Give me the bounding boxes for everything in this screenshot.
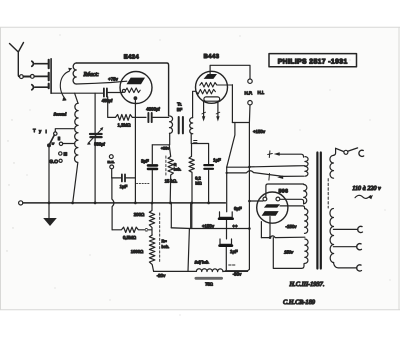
capacitor 6uF electrolytic — [220, 212, 233, 218]
wire m.u. branch with hop over ground bus — [112, 178, 114, 230]
antenna tap 2 wire — [34, 75, 47, 77]
coupling capacitor bar 1 — [48, 60, 50, 68]
rectifier 506 anodes — [264, 204, 280, 207]
wire anode 1 to HT top — [280, 206, 305, 209]
wire: reaction loop top — [76, 63, 168, 116]
filter choke Self bob 75ohm — [196, 269, 223, 272]
pentode B443 filament — [204, 97, 220, 101]
range switch S1 — [54, 132, 57, 135]
ground bus — [19, 201, 23, 205]
dashed tap section — [327, 179, 329, 208]
svg-text:1µF: 1µF — [213, 157, 221, 162]
svg-text:-20v: -20v — [157, 273, 166, 278]
wire tuning cap vertical — [94, 93, 96, 203]
dashed line R bob lower — [159, 213, 161, 262]
svg-text:+150v: +150v — [202, 223, 215, 228]
grid capacitor 450pf — [104, 88, 107, 96]
loudspeaker terminals H.P. H.I. — [248, 79, 252, 83]
antenna bus vertical — [50, 59, 52, 93]
svg-text:1µF: 1µF — [230, 249, 238, 254]
coupling resistor 1.2M — [108, 97, 146, 121]
svg-text:1,2MΩ: 1,2MΩ — [117, 122, 131, 127]
svg-text:-150v: -150v — [286, 224, 298, 229]
tuning coil L2 — [75, 103, 79, 162]
svg-text:150v: 150v — [284, 250, 294, 255]
node B+ vertical — [225, 123, 249, 271]
reaction adjust arrow — [60, 71, 69, 100]
wire grid lead — [108, 92, 123, 94]
wire HI terminal down and left — [232, 105, 250, 123]
resistor 1000 ohm — [149, 235, 155, 271]
resistor 15k — [168, 145, 173, 203]
pentode B443 envelope — [196, 71, 228, 103]
wire switch pivot down — [48, 147, 50, 203]
wire 0.2M below bus to rail — [191, 203, 193, 228]
mains hook terminal (switch) — [359, 150, 364, 156]
svg-text:6µF: 6µF — [234, 206, 242, 211]
triode E424 anode — [127, 78, 146, 85]
svg-text:H.P.: H.P. — [245, 90, 253, 95]
wire coil top lead — [75, 93, 78, 103]
svg-text:4000pf: 4000pf — [146, 107, 160, 112]
triode E424 grid — [122, 89, 125, 92]
reaction coil L react — [73, 63, 76, 84]
filament feed arrow 2 — [268, 174, 271, 181]
svg-text:Self bob.: Self bob. — [195, 259, 210, 264]
svg-text:Second: Second — [54, 111, 67, 116]
dashed line R bob upper — [165, 156, 167, 175]
rectifier 506 envelope — [257, 192, 288, 223]
svg-text:C.H.CR-189: C.H.CR-189 — [283, 299, 316, 306]
tuning variable capacitor 500pf — [90, 134, 102, 137]
svg-text:BF: BF — [177, 107, 183, 112]
wire coil bottom lead — [73, 163, 78, 203]
wire coil tap I — [55, 129, 74, 132]
wire to HT bottom — [273, 238, 304, 269]
HT winding lower — [305, 239, 308, 263]
svg-text:E424: E424 — [124, 54, 140, 61]
4V winding — [304, 185, 307, 204]
wire: main grid line — [51, 92, 103, 94]
transformer Tr BF core — [179, 117, 183, 133]
wire cap chain B with hop — [227, 171, 304, 177]
mains squiggle arrow — [355, 195, 371, 198]
svg-text:15 kΩ.: 15 kΩ. — [165, 179, 178, 184]
antenna link circles — [20, 75, 24, 79]
svg-text:500pf: 500pf — [94, 142, 105, 147]
wire screen grid drop — [231, 85, 233, 123]
wire coil tap II — [63, 143, 75, 145]
svg-text:III: III — [64, 152, 68, 157]
svg-text:110 à 220 v: 110 à 220 v — [352, 185, 381, 192]
pick-up terminals m.u. — [109, 155, 113, 159]
mains transformer core — [317, 153, 320, 269]
wire 506 filament loop top — [266, 184, 304, 197]
capacitor 4000pf — [148, 113, 151, 122]
svg-text:bob.: bob. — [162, 244, 170, 249]
resistor 0.2M — [189, 156, 194, 203]
junction dots on ground bus — [48, 166, 251, 230]
mains switch — [344, 150, 348, 154]
wire B443 grid bias to 1uF — [192, 144, 209, 165]
capacitor 3uF electrolytic — [148, 165, 157, 169]
bottom bus — [154, 270, 248, 272]
coupling capacitor bar 2 — [48, 73, 50, 81]
transformer Tr BF primary — [169, 116, 172, 133]
svg-text:R: R — [174, 163, 177, 167]
mains primary lower — [330, 209, 334, 263]
svg-text:0,5MΩ: 0,5MΩ — [123, 235, 137, 240]
svg-text:200Ω: 200Ω — [134, 212, 145, 217]
wire 3uF line — [151, 145, 153, 203]
svg-text:75Ω: 75Ω — [205, 281, 213, 286]
mains primary upper — [330, 155, 334, 178]
rectifier 506 filament pins — [263, 197, 267, 201]
svg-text:H.I.: H.I. — [258, 90, 265, 95]
resistor 200 ohm — [149, 203, 154, 235]
svg-text:++: ++ — [232, 223, 238, 228]
svg-text:+150v: +150v — [253, 129, 266, 134]
pentode B443 anode — [204, 74, 217, 79]
wire anode to HP terminal — [210, 65, 250, 79]
paper speckle — [6, 34, 390, 315]
svg-text:R=: R= — [162, 238, 168, 243]
wire cap chain A — [227, 166, 250, 168]
svg-text:B443: B443 — [204, 53, 220, 60]
capacitor 1uF (pick-up) — [112, 177, 136, 179]
coupling capacitor bar 3 — [48, 84, 50, 89]
wire m.u. down — [111, 169, 113, 178]
pentode B443 grids — [200, 83, 233, 88]
svg-text:m.u.: m.u. — [108, 160, 115, 164]
filament legs with arrows — [204, 101, 218, 116]
antenna — [10, 43, 24, 77]
svg-text:-30v: -30v — [233, 271, 242, 276]
filter vertical 6uF/1uF chain — [225, 167, 227, 270]
capacitor 1uF electrolytic (filter) — [220, 239, 232, 244]
wire 506 filament loop bottom — [280, 199, 304, 204]
wire rail drop left — [188, 203, 191, 271]
svg-text:+80v: +80v — [161, 147, 169, 151]
capacitor 1uF (grid) — [204, 165, 213, 169]
svg-text:Réact:: Réact: — [83, 71, 100, 78]
HT winding upper — [305, 209, 308, 234]
5V winding — [305, 157, 308, 177]
svg-text:T: T — [33, 128, 36, 133]
svg-text:1µF: 1µF — [120, 184, 128, 189]
wire TrBF secondary bottom — [190, 134, 192, 157]
svg-text:3µF: 3µF — [141, 159, 149, 164]
triode E424 envelope — [120, 72, 152, 104]
mains tap wires and hooks — [333, 228, 358, 230]
wire primary top to switch — [333, 148, 335, 155]
+150 rail — [171, 227, 249, 230]
resistor 0.5M — [112, 227, 151, 232]
wire 506 bottom leads — [261, 217, 270, 238]
ground symbol — [48, 203, 50, 218]
triode E424 cathode — [134, 96, 138, 100]
antenna tap 3 — [32, 85, 48, 90]
wire drop to filter caps — [227, 123, 235, 168]
svg-text:II: II — [58, 136, 60, 141]
transformer Tr BF secondary — [190, 118, 193, 134]
filament feed arrow 1 — [268, 151, 273, 158]
svg-text:bob.: bob. — [174, 168, 181, 172]
svg-text:PHILIPS 2517 -1931: PHILIPS 2517 -1931 — [278, 58, 348, 65]
wire to 5V winding middle — [249, 166, 305, 167]
wire HT centre tap — [261, 236, 305, 238]
wire cathode down — [134, 99, 136, 203]
antenna tap 1 — [32, 61, 48, 66]
wire TrBF secondary top to B443 grid — [193, 91, 196, 117]
wire: reaction coil to anode — [76, 81, 127, 84]
title box PHILIPS 2517-1931 — [269, 54, 357, 67]
svg-text:+75v: +75v — [108, 77, 118, 82]
svg-text:G.O: G.O — [50, 159, 59, 164]
svg-text:MΩ: MΩ — [195, 180, 201, 185]
svg-text:I: I — [46, 129, 47, 134]
svg-text:1000Ω: 1000Ω — [131, 249, 143, 254]
wire 15k below bus to rail — [170, 203, 172, 228]
wire TrBF primary bottom to cathode node — [152, 133, 169, 145]
dotted lead near cathode — [137, 183, 150, 185]
svg-text:H.C.III-1937.: H.C.III-1937. — [289, 281, 325, 288]
wire B+ to 506 — [249, 200, 263, 202]
